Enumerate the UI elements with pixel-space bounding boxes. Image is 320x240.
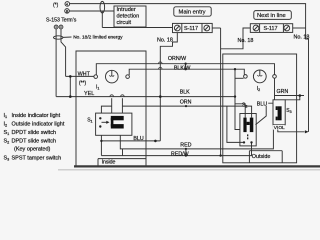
svg-text:VIOL: VIOL [274,125,285,131]
svg-text:S-117: S-117 [184,26,198,32]
svg-text:No. 18: No. 18 [157,38,173,44]
svg-text:S2DPDT slide switch: S2DPDT slide switch [4,138,57,144]
svg-text:Next in line: Next in line [257,13,286,19]
svg-text:No. 18: No. 18 [238,38,254,44]
svg-text:(**): (**) [79,80,87,86]
svg-text:I1Inside indicator light: I1Inside indicator light [4,113,61,119]
svg-text:Outside: Outside [252,154,271,160]
svg-text:Main entry: Main entry [179,9,206,15]
svg-text:S3SPST tamper switch: S3SPST tamper switch [4,156,62,162]
svg-text:No. 18: No. 18 [294,34,310,40]
svg-text:BLU: BLU [257,101,267,107]
svg-text:GRN: GRN [277,89,289,95]
svg-text:detection: detection [117,13,140,19]
svg-text:YEL: YEL [84,91,94,97]
svg-text:S-153 Term's: S-153 Term's [46,18,77,24]
svg-text:4: 4 [66,2,68,6]
svg-text:BLK: BLK [180,89,190,95]
svg-text:RED/W: RED/W [171,152,189,158]
svg-text:Intruder: Intruder [117,7,136,13]
svg-text:ORN/W: ORN/W [168,56,186,62]
svg-text:No. 18/2 limited energy: No. 18/2 limited energy [73,35,123,41]
svg-text:ORN: ORN [180,100,192,106]
svg-text:(Key operated): (Key operated) [14,146,51,152]
svg-text:Inside: Inside [102,160,116,166]
svg-text:circuit: circuit [117,20,132,26]
svg-text:S-117: S-117 [264,26,278,32]
svg-text:BLU: BLU [133,136,143,142]
svg-text:S1DPDT slide switch: S1DPDT slide switch [4,130,57,136]
svg-text:(*): (*) [53,3,59,9]
svg-text:WHT: WHT [78,71,91,77]
svg-text:I2Outside indicator light: I2Outside indicator light [4,122,65,128]
svg-text:RED: RED [180,143,191,149]
svg-text:BLK/W: BLK/W [174,65,190,71]
